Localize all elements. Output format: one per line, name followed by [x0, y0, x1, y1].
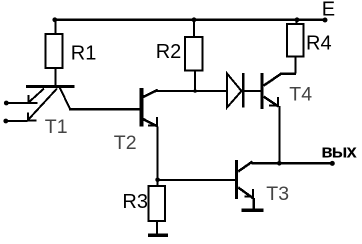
svg-text:T4: T4	[289, 83, 312, 105]
wire: T4 emitter down to output	[278, 106, 280, 163]
wire: T1 collector to T2 base	[69, 108, 141, 110]
wire: T4 collector horizontal to R4	[280, 73, 296, 75]
transistor T3 emitter	[238, 188, 253, 199]
transistor T4 base bar	[260, 73, 263, 109]
diode D1 cathode bar	[242, 73, 245, 108]
node: E terminal dot	[323, 18, 328, 23]
transistor T3 collector	[238, 162, 252, 172]
svg-text:T1: T1	[45, 116, 68, 138]
node: T2 emitter / R3 / T3 base junction	[155, 178, 160, 183]
wire: input stub 2	[6, 120, 28, 122]
transistor T1 collector	[60, 87, 71, 109]
transistor T4 emitter	[264, 97, 279, 107]
resistor R4	[287, 24, 304, 57]
transistor T4 collector	[264, 74, 281, 86]
svg-text:R3: R3	[122, 191, 148, 213]
node: input terminal 2	[3, 119, 8, 124]
svg-text:T2: T2	[114, 132, 137, 154]
wire: input stub 1	[6, 102, 29, 104]
node: input terminal 1	[4, 101, 9, 106]
node: R2 junction	[193, 89, 197, 93]
transistor T1 base bar	[26, 85, 75, 88]
svg-text:T3: T3	[266, 183, 289, 205]
wire: diode to T4 base	[244, 90, 261, 92]
transistor T3 base bar	[235, 160, 238, 199]
wire: R1 top lead	[55, 21, 57, 33]
wire: T2 collector rail to diode	[157, 90, 227, 92]
wire: R2 top lead	[193, 21, 195, 36]
resistor R3	[149, 186, 166, 221]
transistor T1 emitter 2	[28, 89, 58, 121]
wire: +E power rail	[54, 19, 326, 22]
wire: R1 bottom lead	[55, 69, 57, 85]
transistor T1 emitter 1	[28, 89, 44, 104]
svg-text:R1: R1	[71, 43, 97, 65]
node: rail junction above R2	[192, 17, 197, 22]
ground: R3 ground bar	[148, 233, 168, 237]
wire: T2 emitter down to R3/T3 node	[157, 127, 159, 186]
ground: T3 emitter ground bar	[242, 208, 264, 212]
node: output terminal	[330, 161, 335, 166]
node: rail junction above R4	[295, 17, 300, 22]
wire: output line	[252, 162, 333, 165]
svg-text:R2: R2	[156, 41, 182, 63]
node: output junction	[277, 161, 282, 166]
svg-text:R4: R4	[306, 32, 332, 54]
transistor T2 collector	[143, 90, 158, 97]
node: rail junction above R1	[52, 17, 57, 22]
wire: R3 bottom lead	[156, 222, 158, 234]
svg-text:вых: вых	[321, 141, 357, 162]
transistor T2 base bar	[140, 88, 144, 127]
wire: T3 emitter to ground	[252, 198, 254, 209]
resistor R1	[46, 34, 63, 68]
wire: R4 bottom lead	[295, 58, 297, 74]
wire: R2 bottom lead	[194, 71, 196, 92]
resistor R2	[185, 37, 203, 71]
svg-text:E: E	[322, 0, 335, 21]
diode D1 triangle	[227, 74, 242, 108]
transistor T2 emitter	[143, 119, 158, 127]
wire: node to T3 base	[158, 179, 236, 181]
wire: R4 top lead	[296, 21, 298, 24]
